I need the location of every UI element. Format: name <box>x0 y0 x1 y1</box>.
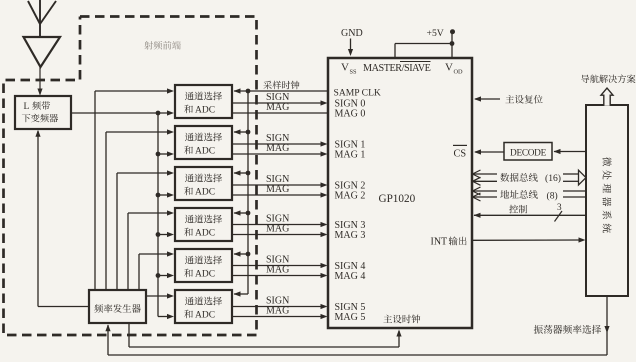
wire sample clock to CH2 <box>234 172 248 174</box>
wire SIGN 2 CH2 to chip <box>232 184 322 186</box>
channel select and ADC block CH5 <box>175 290 232 323</box>
wire signal bus to CH4 <box>158 275 168 277</box>
wire DECODE to chip CS <box>475 151 504 153</box>
label: sampling clock (cai yang shi zhong) <box>263 81 299 89</box>
pin label VOD <box>445 62 463 76</box>
svg-text:ADC: ADC <box>195 147 215 157</box>
wire freq-gen clock to CH3 <box>127 213 129 290</box>
label: navigation solution <box>581 74 635 83</box>
pin label master clock (zhu she shi zhong) <box>383 315 420 324</box>
svg-text:ADC: ADC <box>195 106 215 116</box>
svg-text:V: V <box>341 62 349 74</box>
wire sample clock to CH1 <box>234 131 248 133</box>
svg-text:ADC: ADC <box>195 229 215 239</box>
wire signal bus to CH3 <box>158 234 168 236</box>
wire SIGN 0 CH0 to chip <box>232 102 322 104</box>
wire signal bus to CH1 <box>158 153 168 155</box>
wire antenna to L-band downconverter <box>39 67 41 95</box>
sample clock bus vertical <box>247 91 249 294</box>
svg-text:SAMP CLK: SAMP CLK <box>334 88 381 99</box>
wire freq-gen clock to CH2 <box>116 173 118 290</box>
wire INT output to microprocessor <box>472 239 580 241</box>
svg-text:ADC: ADC <box>195 311 215 321</box>
signal bus vertical <box>157 113 159 317</box>
wire SIGN 4 CH4 to chip <box>232 265 322 267</box>
wire L-band output to CH0 <box>71 112 168 114</box>
svg-text:MAG: MAG <box>266 265 289 276</box>
address bus wires (8) <box>473 190 498 192</box>
svg-text:GND: GND <box>341 28 363 39</box>
control wire <box>474 214 586 216</box>
svg-text:INT: INT <box>431 237 448 248</box>
wire MAG 5 CH5 to chip <box>232 316 322 318</box>
wire MAG 1 CH1 to chip <box>232 153 322 155</box>
svg-text:(8): (8) <box>547 191 558 202</box>
junction sample clock CH4 <box>246 252 251 257</box>
microprocessor system block <box>586 105 628 296</box>
wire signal bus to CH2 <box>158 194 168 196</box>
label: oscillator frequency select <box>534 325 601 334</box>
svg-text:V: V <box>445 62 453 74</box>
svg-text:DECODE: DECODE <box>510 149 547 159</box>
junction sample clock CH2 <box>246 171 251 176</box>
channel select and ADC block CH1 <box>175 126 232 159</box>
svg-text:ADC: ADC <box>195 270 215 280</box>
label: RF front-end (she pin qian duan) <box>144 41 181 50</box>
navigation solution hollow arrow <box>601 88 613 106</box>
wire sample clock to CH3 <box>234 212 248 214</box>
svg-text:MAG: MAG <box>266 143 289 154</box>
wire SIGN 5 CH5 to chip <box>232 306 322 308</box>
bus width slash 3 <box>555 202 563 221</box>
wire MAG 0 CH0 to chip <box>232 112 327 114</box>
svg-text:GP1020: GP1020 <box>379 193 416 205</box>
wire freq-gen LO to L-band downconverter <box>38 306 89 308</box>
svg-text:MAG: MAG <box>266 306 289 317</box>
+5V net <box>395 28 455 57</box>
wire freq-gen clock to CH1 <box>105 132 107 290</box>
svg-text:OD: OD <box>454 69 464 76</box>
junction signal bus at CH0 <box>156 111 161 116</box>
pin label INT output <box>431 237 467 248</box>
pin label CS with overbar <box>453 145 467 159</box>
junction sample clock CH1 <box>246 130 251 135</box>
wire oscillator frequency select <box>606 296 608 355</box>
channel select and ADC block CH4 <box>175 249 232 282</box>
junction signal bus CH2 <box>156 193 161 198</box>
GP1020 chip block <box>328 58 472 328</box>
wire MAG 3 CH3 to chip <box>232 234 322 236</box>
wire sample clock to CH5 <box>234 293 248 295</box>
GND net <box>341 28 363 56</box>
svg-text:+5V: +5V <box>427 28 444 39</box>
DECODE block <box>504 143 552 161</box>
svg-text:CS: CS <box>454 148 467 159</box>
svg-text:MASTER/SIAVE: MASTER/SIAVE <box>363 63 431 74</box>
data bus wires (16) <box>473 173 498 175</box>
data bus hollow arrowhead <box>579 170 587 185</box>
wire signal bus to CH5 <box>158 316 168 318</box>
svg-text:MAG: MAG <box>266 184 289 195</box>
junction signal bus CH4 <box>156 273 161 278</box>
wire SAMP CLK chip to CH0 <box>234 90 328 92</box>
wire master reset into chip <box>475 98 500 100</box>
label: control (kong zhi) <box>509 205 527 214</box>
svg-text:L: L <box>24 102 30 112</box>
wire MAG 2 CH2 to chip <box>232 194 322 196</box>
wire SIGN 3 CH3 to chip <box>232 224 322 226</box>
svg-text:MAG 0: MAG 0 <box>335 109 366 120</box>
svg-text:MAG 2: MAG 2 <box>335 191 366 202</box>
svg-text:MAG 5: MAG 5 <box>335 312 366 323</box>
channel select and ADC block CH0 <box>175 85 232 118</box>
svg-text:SS: SS <box>350 69 358 76</box>
svg-text:MAG: MAG <box>266 102 289 113</box>
wire freq-gen clock to CH5 <box>146 295 168 297</box>
wire MAG 4 CH4 to chip <box>232 275 322 277</box>
channel select and ADC block CH2 <box>175 167 232 200</box>
svg-text:MAG: MAG <box>266 224 289 235</box>
junction signal bus CH3 <box>156 232 161 237</box>
svg-text:MAG 1: MAG 1 <box>335 150 366 161</box>
wire freq-gen clock to CH4 <box>138 254 140 290</box>
pin label MASTER/SLAVE with overbar on SLAVE <box>363 62 431 75</box>
junction sample clock CH3 <box>246 211 251 216</box>
L-band downconverter block <box>15 96 71 129</box>
label: address bus (8) <box>500 190 557 201</box>
wire freq-gen clock to CH0 <box>94 91 96 290</box>
svg-text:3: 3 <box>557 202 562 212</box>
antenna ANT1 <box>24 0 61 67</box>
junction sample clock CH0 <box>246 89 251 94</box>
svg-text:MAG 4: MAG 4 <box>335 271 366 282</box>
RF front-end dashed boundary <box>4 17 257 336</box>
svg-text:MAG 3: MAG 3 <box>335 230 366 241</box>
wire sample clock to CH4 <box>234 253 248 255</box>
label: data bus (16) <box>500 173 561 184</box>
wire microprocessor to DECODE <box>554 151 586 153</box>
frequency generator block <box>89 290 146 323</box>
wire SIGN 1 CH1 to chip <box>232 143 322 145</box>
channel select and ADC block CH3 <box>175 208 232 241</box>
pin label VSS <box>341 62 357 76</box>
wire freq-gen to chip master clock <box>128 323 130 347</box>
label: master reset (zhu she fu wei) <box>505 95 542 104</box>
svg-text:(16): (16) <box>545 173 561 184</box>
junction signal bus CH1 <box>156 152 161 157</box>
svg-text:ADC: ADC <box>195 188 215 198</box>
